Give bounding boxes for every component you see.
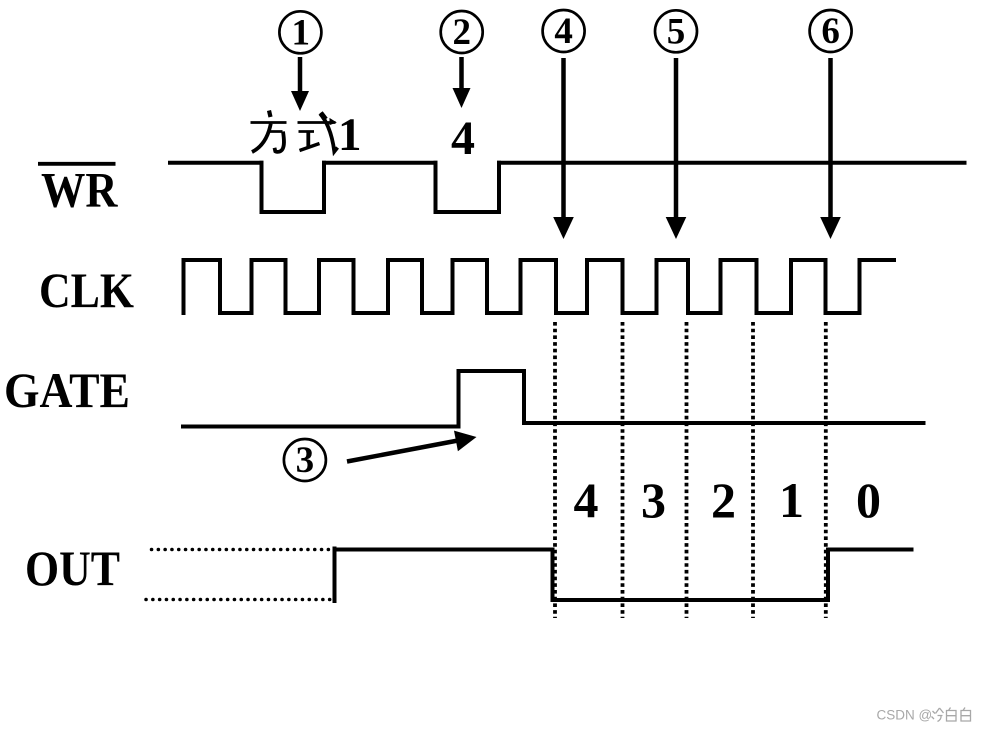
OUT waveform vertical edges [335, 549, 829, 602]
callout circle 5 [655, 10, 697, 52]
svg-text:4: 4 [451, 112, 475, 165]
annotation text 方式1 : hand-drawn 方 [251, 111, 287, 153]
watermark CSDN @冷白白 [877, 708, 971, 723]
CLK waveform horizontal segments [182, 260, 897, 313]
svg-text:OUT: OUT [25, 540, 120, 596]
WR waveform horizontal segments [168, 163, 967, 212]
CLK waveform vertical edges [184, 260, 860, 313]
dotted count-boundary line 2 [621, 322, 625, 618]
svg-text:5: 5 [667, 12, 686, 53]
OUT waveform horizontal segments [333, 550, 914, 601]
svg-text:GATE: GATE [4, 362, 130, 418]
callout circle 1 [279, 11, 321, 53]
svg-text:3: 3 [296, 440, 315, 481]
WR waveform vertical edges [262, 163, 500, 212]
arrow 5 [666, 58, 687, 239]
annotation text 方式1 : hand-drawn 式 [298, 113, 338, 152]
GATE waveform horizontal segments [181, 371, 926, 427]
arrow 2 [453, 57, 471, 108]
svg-text:0: 0 [856, 472, 881, 528]
arrow 4 [553, 58, 574, 239]
svg-text:3: 3 [641, 472, 666, 528]
callout circle 3 [284, 439, 326, 481]
svg-text:1: 1 [338, 109, 362, 161]
GATE waveform vertical edges [459, 371, 525, 427]
svg-text:2: 2 [711, 472, 736, 528]
callout circle 2 [441, 11, 483, 53]
callout circle 6 [810, 10, 852, 52]
OUT initial high-level dotted line [152, 548, 332, 552]
arrow 3 pointing to GATE rising edge [347, 431, 477, 462]
dotted count-boundary line 3 [685, 322, 689, 618]
svg-text:CSDN @: CSDN @ [877, 708, 933, 723]
svg-text:4: 4 [574, 472, 599, 528]
dotted count-boundary line 1 [553, 322, 557, 618]
dotted count-boundary line 4 [751, 322, 755, 618]
svg-text:1: 1 [779, 472, 804, 528]
arrow 6 [820, 58, 841, 239]
svg-text:4: 4 [554, 11, 573, 52]
callout circle 4 [543, 10, 585, 52]
svg-text:6: 6 [821, 11, 840, 52]
dotted count-boundary line 5 [824, 322, 828, 618]
svg-text:CLK: CLK [39, 262, 134, 318]
signal label WR overline [38, 162, 116, 166]
arrow 1 [291, 57, 309, 111]
svg-text:WR: WR [41, 162, 118, 218]
OUT initial low-level dotted line [146, 598, 331, 602]
svg-text:1: 1 [291, 13, 310, 54]
svg-text:2: 2 [452, 12, 471, 53]
